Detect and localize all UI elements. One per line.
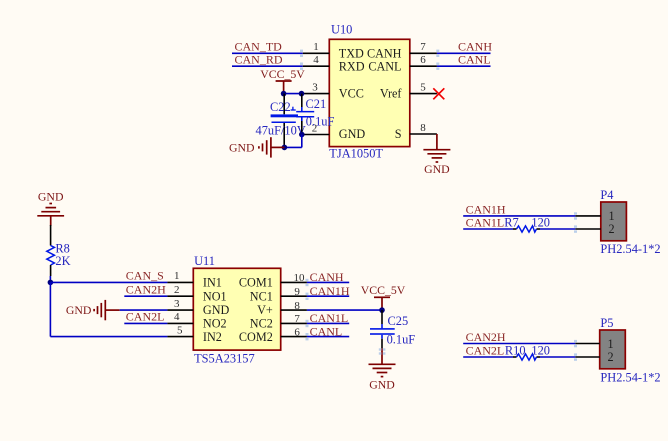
svg-text:1: 1 <box>608 337 614 351</box>
svg-text:7: 7 <box>294 313 300 325</box>
svg-text:0.1uF: 0.1uF <box>306 114 335 128</box>
svg-text:VCC_5V: VCC_5V <box>361 283 406 297</box>
wire R7 to P4 pin2 <box>540 228 575 230</box>
capacitor C21 lead bottom <box>301 118 303 135</box>
P4 pin 2 stub <box>575 228 601 230</box>
capacitor C21 plates <box>296 111 314 118</box>
svg-text:GND: GND <box>203 303 230 317</box>
svg-text:2: 2 <box>174 284 180 296</box>
power ground at U11 pin3 <box>94 300 120 320</box>
svg-text:2: 2 <box>609 222 615 236</box>
wire net CANH (U10 pin7) <box>437 52 491 54</box>
resistor R8 lead top <box>50 225 52 246</box>
U11 pin 10 stub <box>281 281 307 283</box>
wire C21 junction down <box>301 135 303 148</box>
svg-text:CANL: CANL <box>368 59 401 73</box>
U11 pin 3 stub <box>167 309 193 311</box>
svg-text:NC2: NC2 <box>250 317 273 331</box>
wire net CANL (U10 pin6) <box>437 65 491 67</box>
wire net CAN_TD <box>232 52 303 54</box>
wire net CAN_S <box>50 281 167 283</box>
wire R10 to P5 pin2 <box>540 356 575 358</box>
svg-text:CANL: CANL <box>310 324 343 338</box>
capacitor C25 plates <box>370 328 395 335</box>
svg-text:GND: GND <box>38 189 64 203</box>
svg-text:NO2: NO2 <box>203 317 227 331</box>
wire gnd to pin3 <box>120 309 168 311</box>
capacitor C25 lead top <box>381 310 383 328</box>
resistor R8 zigzag <box>47 246 55 266</box>
svg-text:CAN1H: CAN1H <box>466 202 506 216</box>
svg-text:2: 2 <box>608 350 614 364</box>
svg-text:8: 8 <box>294 300 300 312</box>
svg-text:CANL: CANL <box>458 53 491 67</box>
svg-text:R10: R10 <box>505 343 526 357</box>
svg-text:R7: R7 <box>504 215 518 229</box>
compile marks light blue <box>300 50 577 361</box>
power ground below C25 <box>369 348 396 376</box>
svg-text:CAN_S: CAN_S <box>126 269 164 283</box>
svg-text:COM2: COM2 <box>239 330 273 344</box>
wire pin2 to C21 junction <box>301 134 304 136</box>
svg-text:CAN1L: CAN1L <box>466 215 505 229</box>
wire net CAN1H (U11 pin9) <box>307 295 349 297</box>
capacitor C22 plus mark <box>291 107 296 110</box>
svg-text:5: 5 <box>420 81 426 93</box>
svg-text:9: 9 <box>294 286 300 298</box>
svg-text:PH2.54-1*2: PH2.54-1*2 <box>600 242 660 256</box>
wire down left side <box>49 282 51 336</box>
svg-text:CANH: CANH <box>310 270 344 284</box>
svg-text:VCC_5V: VCC_5V <box>260 67 305 81</box>
svg-text:5: 5 <box>177 324 183 336</box>
svg-text:TS5A23157: TS5A23157 <box>194 352 255 366</box>
svg-text:GND: GND <box>66 303 92 317</box>
svg-text:CAN1H: CAN1H <box>310 284 350 298</box>
svg-text:RXD: RXD <box>339 59 365 73</box>
svg-text:NO1: NO1 <box>203 289 227 303</box>
op-amp U10 body <box>329 39 410 146</box>
U10 pin 3 stub <box>303 93 330 95</box>
svg-text:1: 1 <box>313 41 319 53</box>
svg-text:6: 6 <box>294 326 300 338</box>
U10 pin 4 stub <box>303 65 330 67</box>
U11 pin 2 stub <box>167 295 193 297</box>
resistor R7 leads <box>513 228 540 230</box>
svg-text:3: 3 <box>312 81 318 93</box>
power port VCC_5V (top) <box>260 67 305 94</box>
junction at C22 bottom <box>282 145 288 151</box>
svg-text:COM1: COM1 <box>239 276 273 290</box>
svg-text:VCC: VCC <box>339 87 364 101</box>
U10 pin 2 stub <box>303 134 330 136</box>
svg-text:GND: GND <box>339 127 366 141</box>
U11 pin 6 stub <box>281 336 307 338</box>
P5 pin 1 stub <box>575 343 599 345</box>
svg-text:U10: U10 <box>331 23 352 37</box>
U11 pin 9 stub <box>281 295 307 297</box>
capacitor C22 plates <box>271 114 298 123</box>
junction square pin2 <box>299 132 305 138</box>
analog switch U11 body <box>193 268 280 350</box>
svg-text:3: 3 <box>174 298 180 310</box>
svg-text:GND: GND <box>424 162 450 176</box>
svg-text:GND: GND <box>369 377 395 391</box>
wire net CANL (U11 pin6) <box>307 336 349 338</box>
svg-text:TXD: TXD <box>339 46 364 60</box>
svg-text:C25: C25 <box>388 314 409 328</box>
svg-text:CAN2L: CAN2L <box>466 343 505 357</box>
capacitor C22 lead bottom <box>283 123 285 147</box>
svg-text:7: 7 <box>420 41 426 53</box>
wire net CAN1L (U11 pin7) <box>307 322 349 324</box>
wire V+ to VCC <box>307 309 382 311</box>
P4 pin 1 stub <box>575 215 601 217</box>
wire VCC to pin3 <box>284 93 303 95</box>
wire net CAN1H to P4 <box>463 215 575 217</box>
svg-text:2K: 2K <box>55 254 70 268</box>
wire net CAN2L to R10 <box>463 356 513 358</box>
wire net CAN2L <box>124 322 167 324</box>
svg-text:1: 1 <box>174 270 180 282</box>
power ground top-left <box>37 204 64 227</box>
power ground at U10 pin 8 <box>423 134 450 162</box>
svg-text:120: 120 <box>531 215 550 229</box>
svg-text:47uF/10V: 47uF/10V <box>256 124 306 138</box>
svg-text:C21: C21 <box>306 97 327 111</box>
svg-text:V+: V+ <box>257 303 273 317</box>
U11 pin 4 stub <box>167 322 193 324</box>
svg-text:CAN_RD: CAN_RD <box>235 53 283 67</box>
svg-text:CAN2L: CAN2L <box>126 310 165 324</box>
U10 pin 7 stub <box>410 52 437 54</box>
wire net CAN2H <box>124 295 167 297</box>
connector P4 body <box>601 202 627 241</box>
svg-text:6: 6 <box>420 54 426 66</box>
resistor R7 zigzag <box>517 226 537 232</box>
U11 pin 1 stub <box>167 281 193 283</box>
resistor R8 lead bottom <box>50 265 52 276</box>
svg-text:1: 1 <box>609 209 615 223</box>
junction at C21 top <box>299 91 305 97</box>
svg-text:4: 4 <box>313 54 319 66</box>
capacitor C21 lead top <box>301 94 303 107</box>
svg-text:CANH: CANH <box>458 40 492 54</box>
U10 pin 5 stub <box>410 93 437 95</box>
wire gnd horizontal <box>284 146 301 148</box>
capacitor C22 lead top <box>283 94 285 115</box>
svg-text:IN2: IN2 <box>203 330 222 344</box>
power port VCC_5V (bottom) <box>361 283 406 310</box>
wire net CAN_RD <box>232 65 303 67</box>
svg-text:C22: C22 <box>270 100 291 114</box>
junction CAN_S <box>48 280 54 286</box>
svg-text:10: 10 <box>294 272 306 284</box>
connector P5 body <box>600 330 626 369</box>
U10 pin 6 stub <box>410 65 437 67</box>
svg-text:Vref: Vref <box>380 87 403 101</box>
capacitor C21 top stub blue <box>301 107 303 111</box>
svg-text:CANH: CANH <box>367 46 402 60</box>
P5 pin 2 stub <box>575 356 599 358</box>
svg-text:CAN_TD: CAN_TD <box>235 40 283 54</box>
svg-text:NC1: NC1 <box>250 289 273 303</box>
svg-text:GND: GND <box>229 140 255 154</box>
svg-text:0.1uF: 0.1uF <box>387 332 416 346</box>
svg-text:8: 8 <box>420 122 426 134</box>
svg-text:PH2.54-1*2: PH2.54-1*2 <box>600 371 660 385</box>
wire net CAN2H to P5 <box>463 343 575 345</box>
svg-text:P4: P4 <box>600 188 613 202</box>
svg-text:CAN2H: CAN2H <box>126 283 166 297</box>
svg-text:CAN1L: CAN1L <box>310 311 349 325</box>
resistor R10 zigzag <box>517 354 537 360</box>
junction at VCC/C22 <box>281 91 287 97</box>
svg-text:4: 4 <box>174 311 180 323</box>
junction at VCC/C25 <box>379 307 385 313</box>
wire bottom to IN2 <box>50 336 167 338</box>
U11 pin 7 stub <box>281 322 307 324</box>
wire net CAN1L to R7 <box>463 228 513 230</box>
capacitor C25 lead bottom <box>381 335 383 349</box>
power ground left of C22 <box>259 137 285 157</box>
svg-text:TJA1050T: TJA1050T <box>329 147 383 161</box>
svg-text:120: 120 <box>531 343 550 357</box>
U10 pin 1 stub <box>303 52 330 54</box>
svg-text:P5: P5 <box>600 316 613 330</box>
U11 pin 5 stub <box>167 336 193 338</box>
U11 pin 8 stub <box>281 309 307 311</box>
svg-text:U11: U11 <box>194 254 215 268</box>
svg-text:S: S <box>395 127 402 141</box>
wire R8 to junction <box>49 276 51 282</box>
resistor R10 leads <box>513 356 540 358</box>
no-ERC cross on pin 5 <box>433 88 444 99</box>
svg-text:CAN2H: CAN2H <box>466 330 506 344</box>
wire net CANH (U11 pin10) <box>307 281 349 283</box>
svg-text:IN1: IN1 <box>203 276 222 290</box>
U10 pin 8 stub <box>410 133 437 135</box>
